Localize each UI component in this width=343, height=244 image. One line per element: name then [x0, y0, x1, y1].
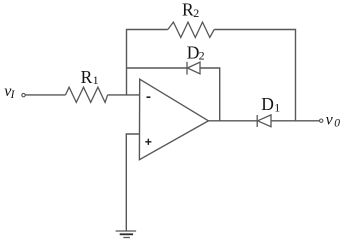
svg-text:1: 1 [274, 100, 280, 114]
wire non-inverting input to ground [126, 134, 139, 231]
label D2 [187, 42, 205, 62]
diode D1 [257, 115, 271, 127]
svg-text:R: R [81, 67, 93, 87]
svg-text:D: D [261, 94, 274, 114]
resistor R2 [168, 22, 214, 37]
svg-text:v: v [326, 111, 334, 128]
svg-text:0: 0 [334, 118, 340, 130]
svg-text:R: R [182, 0, 194, 19]
op-amp U1 [139, 79, 208, 160]
wire input to R1 [25, 94, 65, 96]
svg-text:D: D [187, 42, 200, 62]
label R2 [182, 0, 199, 20]
wire node A to D2 [127, 67, 188, 69]
output terminal v0 [320, 119, 323, 122]
wire R2 to output node [214, 30, 295, 121]
svg-text:I: I [10, 89, 16, 101]
wire op-amp output to D1 [208, 120, 257, 122]
op-amp inverting pin marker - [147, 96, 151, 98]
resistor R1 [66, 87, 108, 102]
svg-text:2: 2 [193, 6, 199, 20]
ground [116, 231, 137, 238]
op-amp non-inverting pin marker + [145, 139, 151, 145]
svg-text:1: 1 [93, 73, 99, 87]
label R1 [81, 67, 99, 87]
label D1 [261, 94, 280, 115]
wire D2 to op-amp output [200, 68, 220, 121]
wire D1 to output terminal [271, 120, 320, 122]
label vI [4, 83, 15, 101]
label v0 [326, 111, 341, 129]
diode D2 [187, 62, 200, 75]
input terminal vI [22, 93, 25, 96]
svg-text:2: 2 [199, 48, 205, 62]
wire node A vertical to top feedback [127, 30, 168, 95]
wire R1 to inverting input [108, 94, 140, 96]
